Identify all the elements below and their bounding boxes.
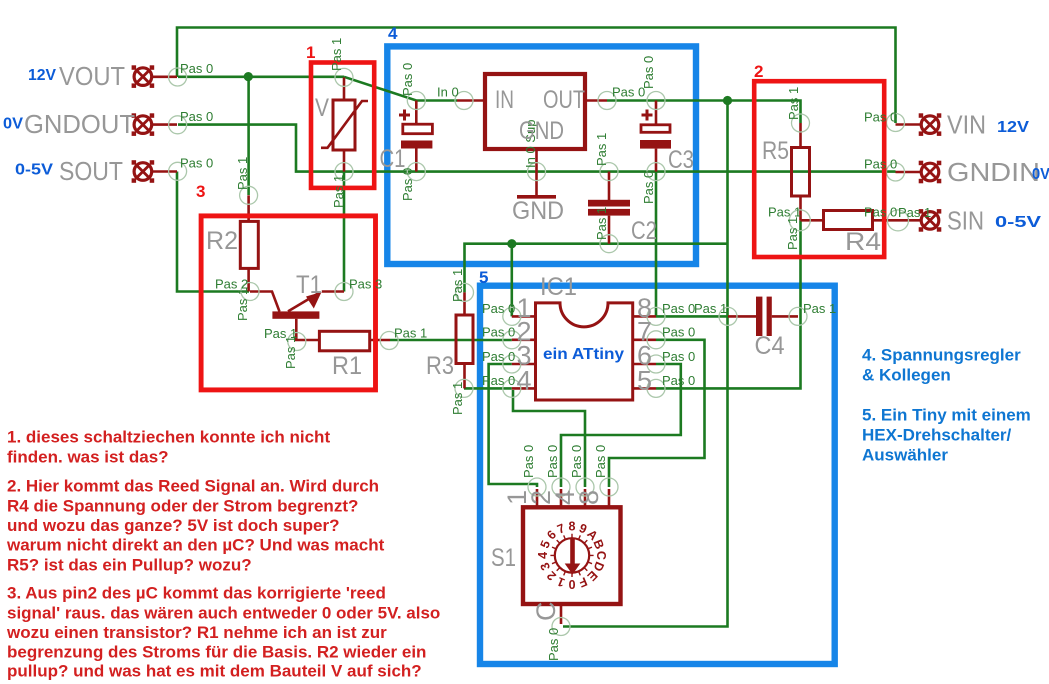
junction junction VOUT/R2 bbox=[244, 72, 253, 81]
svg-text:8: 8 bbox=[574, 490, 604, 505]
VOUT connector stub bbox=[152, 76, 177, 79]
svg-text:Pas 0: Pas 0 bbox=[180, 61, 213, 76]
voltage regulator U (IN/OUT/GND box) bbox=[457, 74, 607, 196]
svg-text:12V: 12V bbox=[997, 119, 1029, 136]
svg-text:1. dieses schaltziechen konnte: 1. dieses schaltziechen konnte ich nicht bbox=[7, 428, 330, 447]
svg-text:R4 die Spannung oder der Strom: R4 die Spannung oder der Strom begrenzt? bbox=[7, 497, 358, 516]
svg-text:GNDOUT: GNDOUT bbox=[24, 109, 135, 139]
wire IC pin8-to-C4 bbox=[656, 315, 728, 318]
svg-text:VOUT: VOUT bbox=[59, 61, 125, 91]
svg-text:5: 5 bbox=[479, 268, 488, 287]
svg-text:S1: S1 bbox=[491, 544, 516, 572]
svg-text:4: 4 bbox=[516, 366, 531, 396]
svg-text:IN: IN bbox=[495, 86, 514, 114]
svg-text:R5: R5 bbox=[762, 137, 789, 165]
resistor R5 bbox=[792, 123, 810, 220]
svg-text:Pas 0: Pas 0 bbox=[546, 628, 561, 661]
svg-text:Pas 0: Pas 0 bbox=[180, 109, 213, 124]
svg-text:Pas 0: Pas 0 bbox=[864, 110, 897, 125]
svg-text:Auswähler: Auswähler bbox=[862, 446, 948, 465]
svg-text:Pas 0: Pas 0 bbox=[482, 301, 515, 316]
svg-text:Pas 0: Pas 0 bbox=[662, 349, 695, 364]
svg-text:Pas 0: Pas 0 bbox=[180, 156, 213, 171]
resistor R1 bbox=[319, 331, 390, 351]
wire VOUT net bbox=[178, 76, 344, 79]
GNDOUT connector stub bbox=[152, 123, 177, 126]
svg-text:Pas 0: Pas 0 bbox=[662, 373, 695, 388]
svg-text:HEX-Drehschalter/: HEX-Drehschalter/ bbox=[862, 426, 1012, 445]
IC1 ATtiny body bbox=[512, 303, 656, 400]
frame box 4 (Spannungsregler group) bbox=[387, 46, 696, 264]
svg-text:Pas 0: Pas 0 bbox=[593, 445, 608, 478]
svg-text:SIN: SIN bbox=[947, 206, 984, 236]
svg-text:und wozu das ganze? 5V ist doc: und wozu das ganze? 5V ist doch super? bbox=[7, 516, 339, 535]
svg-text:0: 0 bbox=[568, 577, 575, 591]
varistor V bbox=[321, 77, 368, 171]
resistor R2 bbox=[240, 195, 258, 291]
wire R5 bottom-to-IC pin5 bbox=[656, 220, 801, 388]
svg-text:Pas 1: Pas 1 bbox=[786, 87, 801, 120]
wire IC pin6-to-S1 pin2 bbox=[561, 364, 681, 487]
svg-text:Pas 1: Pas 1 bbox=[694, 301, 727, 316]
svg-text:C: C bbox=[594, 551, 608, 560]
svg-text:C2: C2 bbox=[631, 217, 657, 245]
wire 12V top rail VOUT-to-VIN bbox=[177, 28, 896, 124]
svg-text:0-5V: 0-5V bbox=[995, 214, 1041, 231]
svg-text:C1: C1 bbox=[380, 145, 406, 173]
svg-text:Pas 0: Pas 0 bbox=[482, 349, 515, 364]
svg-text:1: 1 bbox=[306, 43, 315, 62]
connector X2-1 VIN pad bbox=[919, 113, 942, 136]
svg-text:Pas 1: Pas 1 bbox=[785, 217, 800, 250]
svg-text:wozu einen transistor? R1 nehm: wozu einen transistor? R1 nehme ich an i… bbox=[6, 623, 387, 642]
svg-text:8: 8 bbox=[569, 520, 576, 534]
wire SOUT-to-T1 base bbox=[177, 172, 249, 292]
svg-text:GND: GND bbox=[519, 117, 564, 145]
svg-text:OUT: OUT bbox=[543, 86, 585, 114]
capacitor C1 (polarized) bbox=[399, 101, 432, 172]
svg-text:0V: 0V bbox=[3, 116, 23, 133]
svg-text:0-5V: 0-5V bbox=[15, 162, 53, 179]
svg-text:Pas 1: Pas 1 bbox=[329, 38, 344, 71]
svg-text:4: 4 bbox=[536, 552, 550, 559]
svg-text:Pas 0: Pas 0 bbox=[521, 445, 536, 478]
wire IC pin4-to-S1 pin4 bbox=[513, 390, 585, 487]
svg-text:2: 2 bbox=[754, 62, 763, 81]
svg-text:Pas 1: Pas 1 bbox=[898, 205, 931, 220]
rotary switch S1 bbox=[523, 489, 621, 624]
wire GNDOUT net bbox=[178, 125, 896, 172]
svg-text:Pas 0: Pas 0 bbox=[864, 205, 897, 220]
svg-text:R1: R1 bbox=[332, 352, 362, 380]
svg-text:R2: R2 bbox=[206, 227, 238, 255]
wire GND bottom rail bbox=[465, 244, 728, 293]
svg-text:Pas 1: Pas 1 bbox=[394, 326, 427, 341]
ground symbol GND bbox=[517, 195, 556, 199]
svg-text:begrenzung des Stroms für die: begrenzung des Stroms für die Basis. R2 … bbox=[7, 643, 426, 662]
capacitor C2 bbox=[588, 172, 630, 244]
connector X1-3 SOUT pad bbox=[132, 160, 155, 183]
svg-text:Pas 0: Pas 0 bbox=[569, 445, 584, 478]
capacitor C3 (polarized) bbox=[640, 101, 671, 172]
svg-text:Pas 3: Pas 3 bbox=[349, 277, 382, 292]
wire R3-to-IC pin4 bbox=[464, 387, 512, 390]
svg-text:Pas 1: Pas 1 bbox=[283, 336, 298, 369]
svg-text:R4: R4 bbox=[845, 228, 881, 256]
svg-text:Pas 1: Pas 1 bbox=[331, 175, 346, 208]
wire R1-to-IC pin2 bbox=[390, 339, 512, 342]
svg-text:warum nicht direkt an den µC?: warum nicht direkt an den µC? Und was ma… bbox=[6, 536, 385, 555]
svg-text:In 0: In 0 bbox=[437, 85, 459, 100]
wire IC pin3-to-S1 pin1 bbox=[489, 364, 537, 487]
svg-text:Pas 1: Pas 1 bbox=[594, 133, 609, 166]
SIN connector stub / R4 pin 2 bbox=[873, 219, 922, 222]
wire rail-to-IC pin1 bbox=[510, 244, 513, 317]
svg-text:3. Aus pin2 des µC kommt das k: 3. Aus pin2 des µC kommt das korrigierte… bbox=[7, 584, 386, 603]
wire 5V vertical to C4/S1-C bbox=[563, 101, 728, 627]
wire OUT 5V rail bbox=[607, 101, 801, 124]
svg-text:IC1: IC1 bbox=[540, 273, 577, 301]
svg-text:4: 4 bbox=[388, 24, 398, 43]
svg-text:Pas 0: Pas 0 bbox=[545, 445, 560, 478]
connector X1-2 GNDOUT pad bbox=[132, 113, 155, 136]
svg-text:Pas 0: Pas 0 bbox=[662, 325, 695, 340]
svg-text:SOUT: SOUT bbox=[59, 156, 123, 186]
svg-text:Pas 0: Pas 0 bbox=[864, 157, 897, 172]
transistor T1 bbox=[250, 292, 344, 341]
wire junction-to-R2 bbox=[247, 77, 250, 195]
frame box 1 (varistor group) bbox=[311, 63, 374, 188]
svg-text:Pas 0: Pas 0 bbox=[482, 325, 515, 340]
svg-text:Pas 1: Pas 1 bbox=[235, 157, 250, 190]
resistor R3 bbox=[456, 292, 473, 388]
frame box 3 (transistor group) bbox=[201, 216, 375, 390]
svg-text:R3: R3 bbox=[426, 352, 454, 380]
resistor R4 bbox=[801, 211, 873, 230]
connector X2-3 SIN pad bbox=[919, 209, 942, 232]
svg-text:4. Spannungsregler: 4. Spannungsregler bbox=[862, 346, 1021, 365]
svg-text:finden. was ist das?: finden. was ist das? bbox=[7, 448, 169, 467]
svg-text:C: C bbox=[531, 602, 561, 622]
GNDIN connector stub bbox=[896, 171, 922, 174]
SOUT connector stub bbox=[152, 170, 177, 173]
svg-text:5: 5 bbox=[637, 366, 652, 396]
svg-text:C3: C3 bbox=[668, 146, 694, 174]
pin name labels bbox=[180, 38, 931, 661]
svg-text:C4: C4 bbox=[755, 332, 785, 360]
svg-text:Pas 0: Pas 0 bbox=[400, 63, 415, 96]
svg-text:ein ATtiny: ein ATtiny bbox=[543, 346, 624, 363]
svg-text:5. Ein Tiny mit einem: 5. Ein Tiny mit einem bbox=[862, 406, 1031, 425]
svg-text:signal' raus. das wären auch e: signal' raus. das wären auch entweder 0 … bbox=[7, 604, 440, 623]
svg-text:VIN: VIN bbox=[947, 110, 986, 140]
capacitor C4 bbox=[728, 297, 798, 336]
svg-text:2. Hier kommt das Reed Signal: 2. Hier kommt das Reed Signal an. Wird d… bbox=[7, 477, 379, 496]
connector X1-1 VOUT pad bbox=[132, 65, 155, 88]
svg-text:& Kollegen: & Kollegen bbox=[862, 366, 951, 385]
svg-text:Pas 1: Pas 1 bbox=[450, 269, 465, 302]
svg-text:GNDIN: GNDIN bbox=[947, 157, 1040, 187]
svg-text:Pas 0: Pas 0 bbox=[662, 301, 695, 316]
svg-text:Pas 0: Pas 0 bbox=[482, 373, 515, 388]
svg-text:Pas 1: Pas 1 bbox=[450, 382, 465, 415]
svg-text:V: V bbox=[315, 94, 329, 122]
wire IC pin7-to-S1 pin8 bbox=[609, 340, 705, 487]
junction junction 5V rail/C4 drop bbox=[723, 96, 732, 105]
svg-text:pullup? und was hat es mit dem: pullup? und was hat es mit dem Bauteil V… bbox=[7, 662, 422, 681]
svg-text:R5? ist das ein Pullup? wozu?: R5? ist das ein Pullup? wozu? bbox=[7, 556, 252, 575]
junction junction rail/IC pin1 bbox=[507, 239, 516, 248]
frame box 2 (R4/R5 group) bbox=[754, 81, 884, 257]
svg-text:Pas 0: Pas 0 bbox=[641, 171, 656, 204]
wire varistor-to-Pas3 collector bbox=[343, 172, 346, 292]
wire VOUT-to-C1/IN diagonal bbox=[344, 77, 457, 101]
svg-text:3: 3 bbox=[196, 182, 205, 201]
svg-text:Pas 1: Pas 1 bbox=[235, 288, 250, 321]
wire C3-to-IC pin8 bbox=[655, 172, 658, 317]
connector X2-2 GNDIN pad bbox=[919, 161, 942, 184]
svg-text:Pas 1: Pas 1 bbox=[803, 301, 836, 316]
svg-text:GND: GND bbox=[512, 197, 564, 225]
svg-text:0V: 0V bbox=[1032, 166, 1049, 183]
svg-text:Pas 0: Pas 0 bbox=[641, 56, 656, 89]
VIN connector stub bbox=[896, 123, 922, 126]
svg-text:Pas 1: Pas 1 bbox=[594, 207, 609, 240]
pin circles bbox=[169, 68, 909, 636]
svg-text:T1: T1 bbox=[296, 271, 322, 299]
frame box 5 (Tiny group) bbox=[480, 286, 835, 664]
svg-text:12V: 12V bbox=[28, 67, 56, 84]
